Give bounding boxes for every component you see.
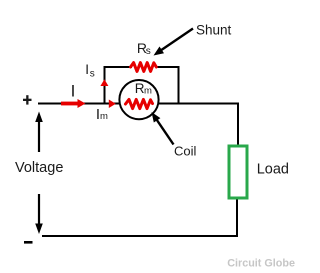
load resistor (green rectangle) xyxy=(229,146,247,198)
voltage arrow down xyxy=(38,194,40,226)
wire: load bottom vertical xyxy=(236,199,238,236)
current arrow I (red, on main wire) xyxy=(61,102,78,106)
wire: shunt right vertical branch xyxy=(178,66,180,104)
meter M1 (moving coil galvanometer circle) xyxy=(119,80,158,119)
svg-text:m: m xyxy=(144,86,152,97)
svg-text:Circuit Globe: Circuit Globe xyxy=(227,258,295,270)
wire: shunt top right segment xyxy=(156,66,179,68)
wire: main right segment from meter to load branch corner xyxy=(158,104,238,147)
resistor Rs (shunt resistor zigzag) xyxy=(131,63,157,72)
current arrow Is (red, up the shunt branch) xyxy=(100,79,108,86)
svg-text:m: m xyxy=(100,111,108,122)
wire: bottom return wire xyxy=(42,235,238,237)
voltage arrow up xyxy=(38,121,40,153)
annotation arrow to coil xyxy=(156,119,173,145)
wire: shunt left vertical branch xyxy=(104,66,106,105)
svg-text:Load: Load xyxy=(257,162,289,178)
svg-text:Voltage: Voltage xyxy=(15,160,63,176)
svg-text:Coil: Coil xyxy=(174,144,197,159)
wire: shunt top left segment xyxy=(104,66,133,68)
svg-text:s: s xyxy=(90,69,95,80)
svg-text:I: I xyxy=(85,62,89,77)
annotation arrow to shunt xyxy=(161,29,193,51)
svg-text:I: I xyxy=(71,82,76,101)
svg-text:Shunt: Shunt xyxy=(196,22,232,37)
current arrow Im (red, into the meter) xyxy=(109,100,116,109)
svg-text:s: s xyxy=(146,46,151,57)
+ terminal xyxy=(23,99,32,101)
- terminal xyxy=(24,241,33,244)
resistor Rm (coil resistance zigzag inside meter) xyxy=(126,99,153,108)
wire: main left segment from + terminal to meter xyxy=(38,103,120,105)
